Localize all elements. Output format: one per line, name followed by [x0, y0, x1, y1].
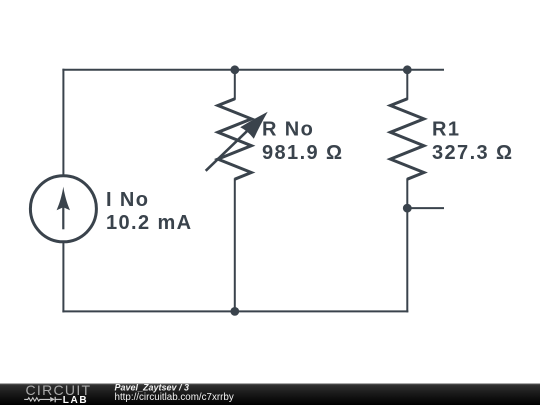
- current source I No arrow shaft: [62, 198, 64, 229]
- svg-text:10.2 mA: 10.2 mA: [106, 212, 193, 234]
- wire middle vertical below R No: [234, 179, 236, 311]
- svg-text:LAB: LAB: [63, 395, 88, 405]
- wire left vertical (below source): [62, 242, 64, 312]
- svg-text:327.3 Ω: 327.3 Ω: [432, 142, 513, 164]
- wire top rail: [63, 69, 443, 71]
- footer bar background: [0, 384, 540, 405]
- wire left vertical (top of source): [62, 70, 64, 176]
- svg-text:http://circuitlab.com/c7xrrby: http://circuitlab.com/c7xrrby: [115, 392, 234, 403]
- variable resistor R No wiper arrow line: [206, 124, 255, 171]
- wire stub right of node B: [407, 207, 443, 209]
- svg-text:I No: I No: [106, 189, 149, 211]
- current source I No circle: [30, 176, 96, 242]
- node junction dot bottom middle: [230, 307, 239, 316]
- resistor R1 top lead: [406, 70, 408, 99]
- node junction dot right middle: [403, 204, 412, 213]
- svg-text:R1: R1: [432, 119, 460, 141]
- wire right vertical below R1: [406, 179, 408, 311]
- footer logo resistor-diode squiggle: [24, 398, 50, 401]
- node junction dot top right: [403, 65, 412, 74]
- wire bottom rail: [63, 310, 407, 312]
- variable resistor R No zigzag body: [218, 99, 252, 179]
- svg-text:Pavel_Zaytsev / 3: Pavel_Zaytsev / 3: [115, 382, 190, 392]
- svg-text:R No: R No: [262, 119, 314, 141]
- resistor R1 zigzag body: [390, 99, 424, 179]
- node junction dot top middle: [230, 65, 239, 74]
- current source I No arrow head: [57, 187, 70, 211]
- footer logo diode symbol: [50, 397, 55, 402]
- svg-text:981.9 Ω: 981.9 Ω: [262, 142, 343, 164]
- variable resistor R No wiper arrow head: [240, 112, 268, 139]
- variable resistor R No top lead: [234, 70, 236, 99]
